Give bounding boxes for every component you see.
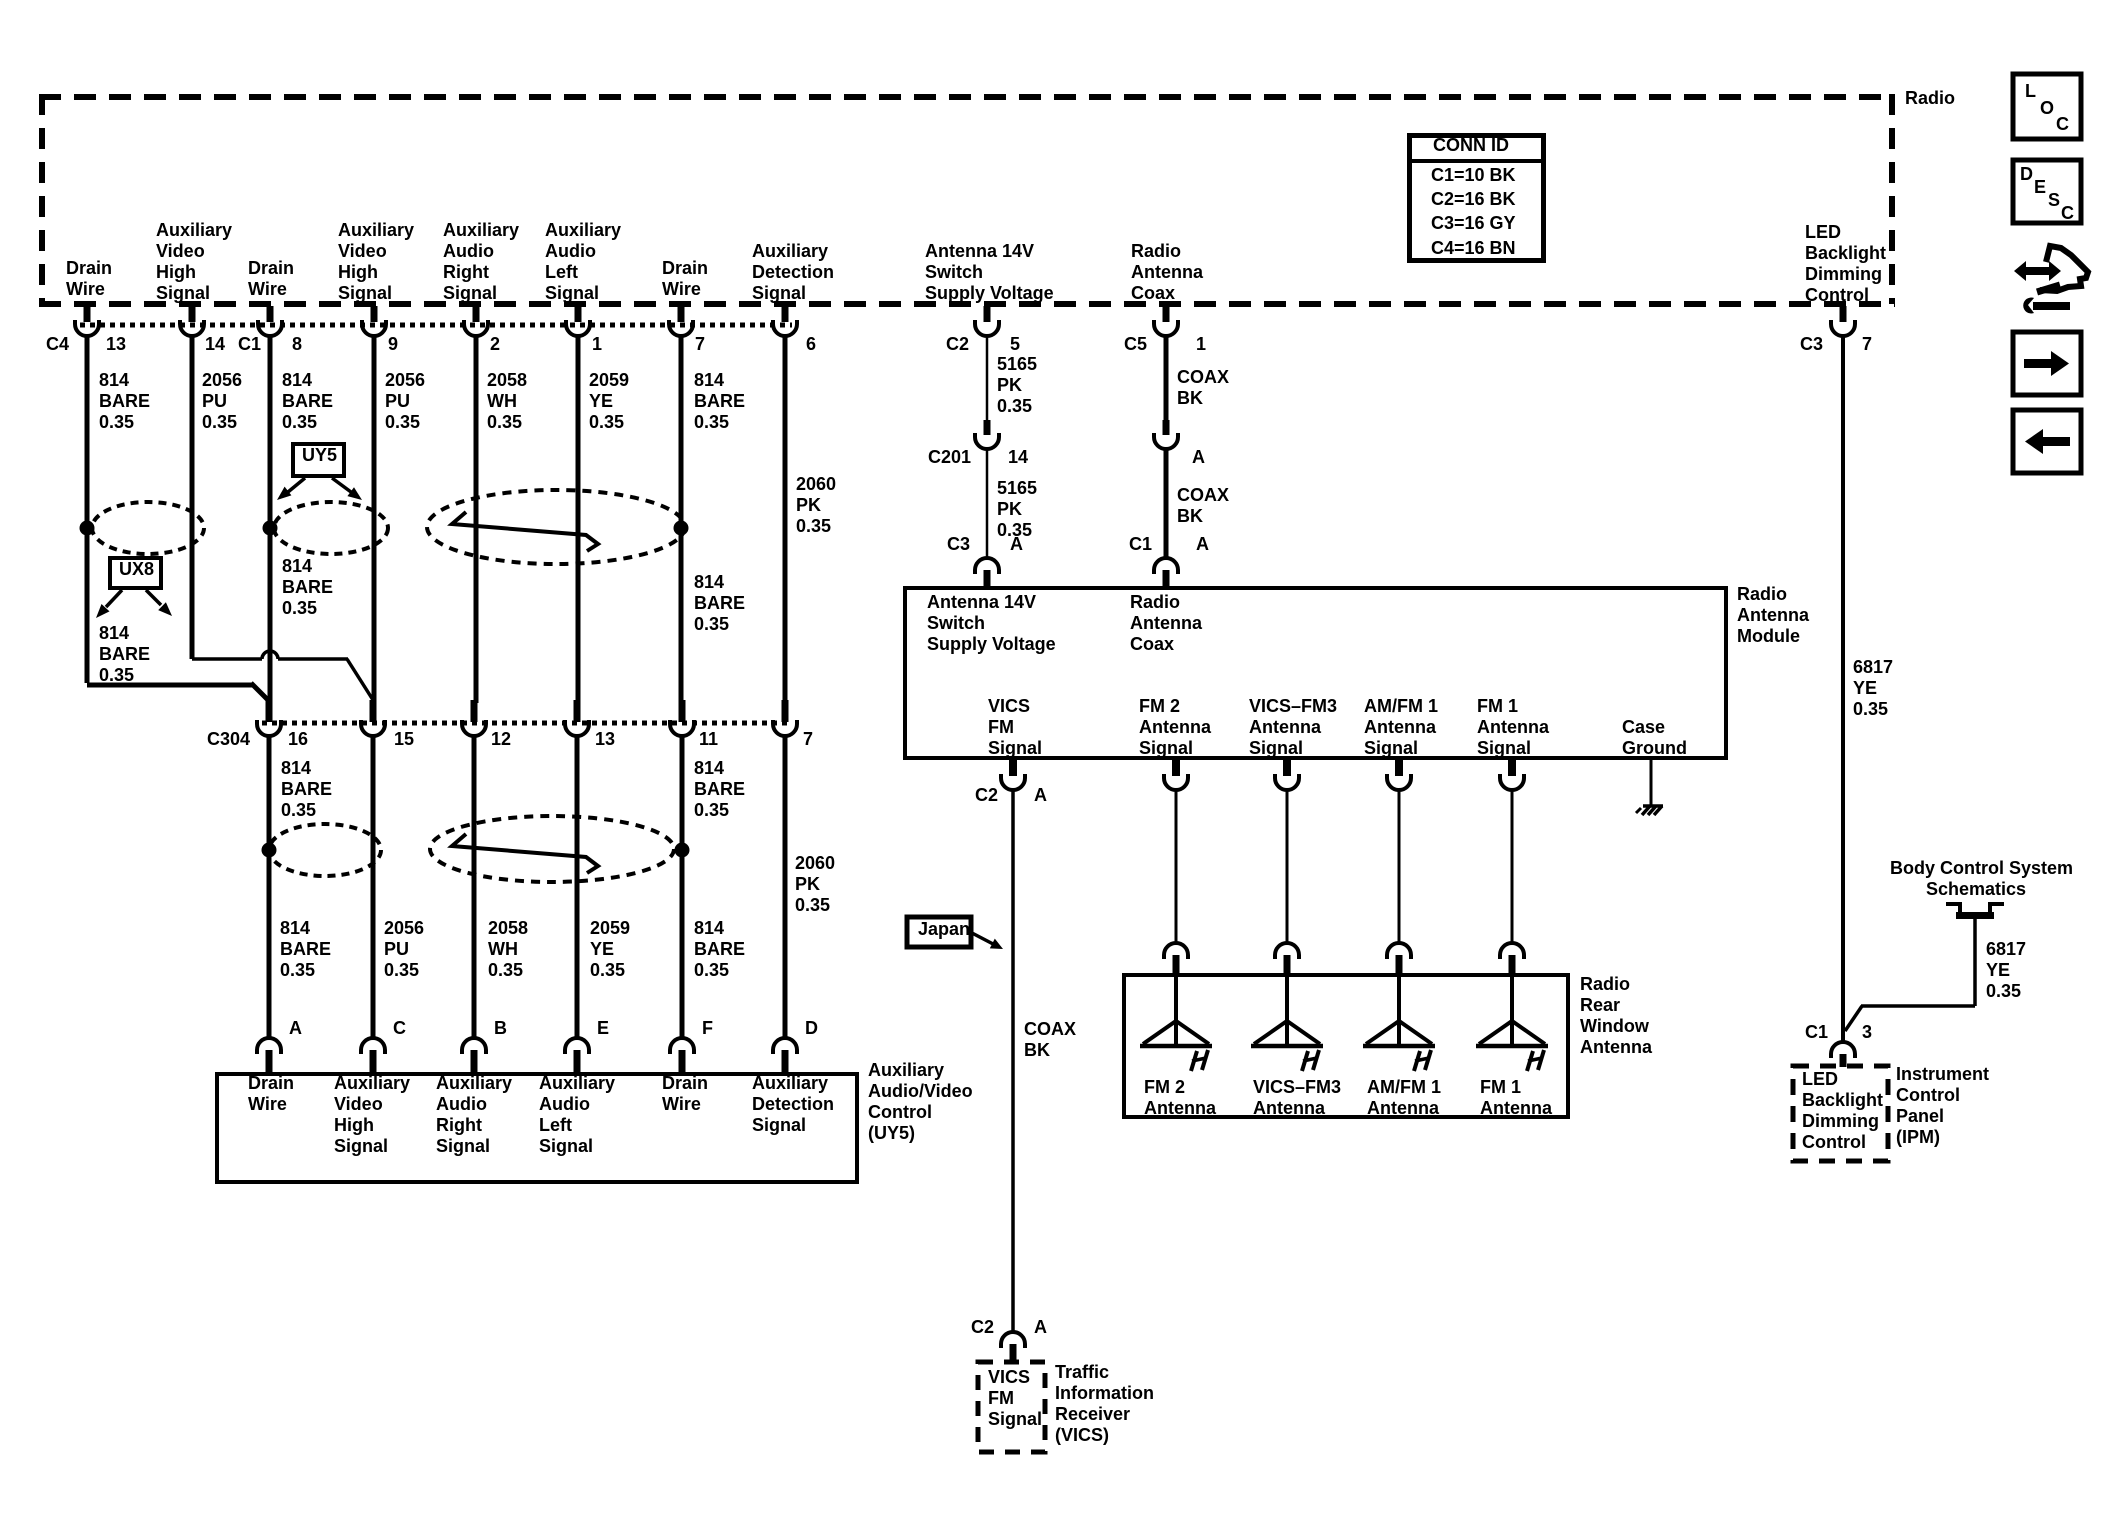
- wire from radio at x=87: [85, 336, 90, 683]
- wire 814 BARE 0.35 (7): [694, 370, 745, 433]
- pin C304-7: [803, 729, 813, 750]
- junction dot drain x682 row2: [675, 843, 690, 858]
- connector pin 7 drain (stub+cup): [678, 306, 685, 322]
- wire from radio at x=681: [679, 336, 684, 703]
- module label AM/FM1: [1364, 696, 1438, 759]
- Radio ECU dashed box outline: [39, 94, 1895, 100]
- connector aux control at x=373 (cap+stub): [361, 1038, 385, 1054]
- connector label C3: [947, 534, 970, 555]
- module bottom connector VICS FM signal (stub+cup): [1009, 760, 1017, 776]
- connector label C201: [928, 447, 971, 468]
- connector pin 2 aux audio right (stub+cup): [473, 306, 480, 322]
- pin D: [805, 1018, 818, 1039]
- antenna hash mark at x=1176: [1191, 1051, 1197, 1071]
- LED Backlight Dimming Control dashed box: [1793, 1066, 1888, 1161]
- antenna symbol at x=1287: [1285, 977, 1289, 1046]
- junction dot drain x87: [80, 521, 95, 536]
- pin label C1: [238, 334, 261, 355]
- CONN ID table: [1407, 133, 1546, 263]
- aux box label drain wire A: [248, 1073, 294, 1115]
- pin C3-A: [1010, 534, 1023, 555]
- connector C4 pin 13 drain (stub+cup): [84, 306, 91, 322]
- label Instrument Control Panel IPM: [1896, 1064, 1989, 1148]
- connector aux control at x=682 (cap+stub): [670, 1038, 694, 1054]
- pin C5-1: [1196, 334, 1206, 355]
- UY5 option box: [293, 444, 344, 476]
- wire 2056 PU 0.35 (9): [385, 370, 425, 433]
- in-line connector C201 pin14: [984, 420, 991, 435]
- module bottom connector VICS-FM3 antenna (stub+cup): [1283, 760, 1291, 776]
- pin label C1 IPM: [1805, 1022, 1828, 1043]
- connector C1 pin 8 drain (stub+cup): [267, 306, 274, 322]
- rear window FM2 antenna label: [1144, 1077, 1216, 1119]
- module label case ground: [1622, 717, 1687, 759]
- aux box label audio left E: [539, 1073, 615, 1157]
- antenna symbol at x=1399: [1397, 977, 1401, 1046]
- pin 6: [806, 334, 816, 355]
- wire 2059 YE lower: [590, 918, 630, 981]
- wire C304 to aux control at x=373: [371, 736, 376, 1038]
- pin 9: [388, 334, 398, 355]
- wire from body control system: [1973, 919, 1977, 1006]
- twisted pair ellipse row2a: [269, 824, 381, 876]
- module label FM2: [1139, 696, 1211, 759]
- pin B: [494, 1018, 507, 1039]
- module bottom connector AM/FM1 antenna (stub+cup): [1395, 760, 1403, 776]
- wire from radio at x=785: [783, 336, 788, 703]
- wire COAX BK upper: [1177, 367, 1229, 409]
- label Auxiliary Audio/Video Control (UY5): [868, 1060, 973, 1144]
- Japan option box: [907, 917, 971, 947]
- pin C1-A: [1196, 534, 1209, 555]
- module label VICS FM signal: [988, 696, 1042, 759]
- pin 2: [490, 334, 500, 355]
- pin label C2 module bottom: [975, 785, 998, 806]
- Radio Rear Window Antenna box: [1124, 975, 1568, 1117]
- connector pin 6 aux detection (stub+cup): [782, 306, 789, 322]
- pin 1: [592, 334, 602, 355]
- wire 2058 WH 0.35 (2): [487, 370, 527, 433]
- wire from radio at x=476: [474, 336, 479, 703]
- wire 6817 YE 0.35 from BCS: [1986, 939, 2026, 1002]
- pin label C2 VICS: [971, 1317, 994, 1338]
- pin 13: [106, 334, 126, 355]
- label radio antenna coax: [1131, 241, 1203, 304]
- back arrow icon box: [2013, 410, 2081, 473]
- twist arrow row1: [452, 512, 598, 551]
- antenna hash mark at x=1399: [1414, 1051, 1420, 1071]
- module label FM1: [1477, 696, 1549, 759]
- junction dot drain x681: [674, 521, 689, 536]
- wire COAX BK lower: [1177, 485, 1229, 527]
- connector aux control at x=269 (cap+stub): [257, 1038, 281, 1054]
- antenna wire at x=1287: [1286, 791, 1289, 943]
- wire C304 to aux control at x=474: [472, 736, 477, 1038]
- label drain wire 7: [662, 258, 708, 300]
- antenna hash mark at x=1287: [1302, 1051, 1308, 1071]
- pin label C5: [1124, 334, 1147, 355]
- connector C2 pin 5 antenna 14V (stub+cup): [984, 306, 991, 322]
- wire C304 to aux control at x=269: [267, 736, 272, 1038]
- wire 2058 WH lower: [488, 918, 528, 981]
- connector pin 9 aux video high (stub+cup): [371, 306, 378, 322]
- UY5 label: [302, 445, 337, 466]
- antenna symbol at x=1512: [1510, 977, 1514, 1046]
- pin 8: [292, 334, 302, 355]
- wire 814 BARE row2 x682: [694, 758, 745, 821]
- wire 2060 PK row2: [795, 853, 835, 916]
- aux box label drain wire F: [662, 1073, 708, 1115]
- antenna wire at x=1512: [1511, 791, 1514, 943]
- pin 11: [699, 729, 718, 750]
- connector C3-A into module (cap+stub): [975, 558, 999, 574]
- Auxiliary Audio/Video Control box: [217, 1074, 857, 1182]
- label Radio Antenna Module: [1737, 584, 1809, 647]
- wire 5165 PK 0.35 lower: [997, 478, 1037, 541]
- junction dot drain x270: [263, 521, 278, 536]
- in-line coax connector A: [1163, 420, 1170, 435]
- label drain wire C1-8: [248, 258, 294, 300]
- rear window VICS-FM3 antenna label: [1253, 1077, 1341, 1119]
- connector C304 at x=373 (stub+cup): [370, 700, 377, 722]
- wire 814 BARE row2 x269: [281, 758, 332, 821]
- label Radio Rear Window Antenna: [1580, 974, 1652, 1058]
- connector C1-A into module (cap+stub): [1154, 558, 1178, 574]
- pin label C4: [46, 334, 69, 355]
- wire from radio at x=374: [372, 336, 377, 703]
- pin C: [393, 1018, 406, 1039]
- pin label C2: [946, 334, 969, 355]
- antenna symbol at x=1176: [1174, 977, 1178, 1046]
- module label radio antenna coax: [1130, 592, 1202, 655]
- pin F: [702, 1018, 713, 1039]
- in-line connector dotted row at radio: [80, 323, 792, 328]
- label aux audio left signal 1: [545, 220, 621, 304]
- connector aux control at x=785 (cap+stub): [773, 1038, 797, 1054]
- wire from radio at x=192: [190, 336, 195, 659]
- wire 814 BARE 0.35 below UY5: [282, 556, 333, 619]
- case ground wire: [1650, 760, 1653, 806]
- pin E: [597, 1018, 609, 1039]
- connector C304 at x=269 (stub+cup): [266, 700, 273, 722]
- connector C1-3 into instrument panel (cap+stub): [1831, 1042, 1855, 1058]
- coax wire C5-1 to inline: [1164, 336, 1169, 420]
- pin 12: [491, 729, 511, 750]
- UX8 arrows: [106, 590, 122, 607]
- connector C3 pin 7 LED backlight (stub+cup): [1840, 306, 1847, 322]
- LOC letters: [2025, 81, 2036, 102]
- pin A module bottom: [1034, 785, 1047, 806]
- wire C304 to aux control at x=682: [680, 736, 685, 1038]
- module label antenna 14V: [927, 592, 1056, 655]
- wire 814 BARE 0.35 (C1-8): [282, 370, 333, 433]
- case ground symbol: [1643, 804, 1663, 808]
- aux box label detection D: [752, 1073, 834, 1136]
- aux box label audio right B: [436, 1073, 512, 1157]
- wire 2056 PU 0.35 (14): [202, 370, 242, 433]
- wire pin14 route to C304 pin15 with hop over x270: [192, 657, 262, 661]
- wire 2059 YE 0.35 (1): [589, 370, 629, 433]
- label Traffic Information Receiver VICS: [1055, 1362, 1154, 1446]
- pin 5: [1010, 334, 1020, 355]
- pin 16: [288, 729, 308, 750]
- pin 7: [695, 334, 705, 355]
- Radio Antenna Module box: [905, 588, 1726, 758]
- Body Control System bracket symbol: [1946, 904, 2004, 914]
- pin A: [289, 1018, 302, 1039]
- twisted pair big ellipse row2: [430, 816, 674, 882]
- connector pin 14 aux video high (stub+cup): [189, 306, 196, 322]
- connector C304 at x=785 (stub+cup): [782, 700, 789, 722]
- label drain wire C4-13: [66, 258, 112, 300]
- LED backlight dimming wire: [1841, 336, 1845, 1041]
- pin 15: [394, 729, 414, 750]
- connector C304 at x=682 (stub+cup): [679, 700, 686, 722]
- wire 6817 YE 0.35 LED: [1853, 657, 1893, 720]
- wire 814 BARE lower x269: [280, 918, 331, 981]
- wire 2056 PU lower: [384, 918, 424, 981]
- wire from radio at x=578: [576, 336, 581, 703]
- pin coax inline A: [1192, 447, 1205, 468]
- wire 5165 PK 0.35 upper: [997, 354, 1037, 417]
- coax wire to C1-A: [1164, 449, 1169, 557]
- connector label C304: [207, 729, 250, 750]
- label aux detection signal 6: [752, 241, 834, 304]
- wire 814 BARE 0.35 below UX8: [99, 623, 150, 686]
- connector into rear window antenna at x=1287 (cap+stub): [1275, 943, 1299, 959]
- wire 814 BARE 0.35 below dot 7: [694, 572, 745, 635]
- twisted pair big ellipse row1: [427, 490, 685, 564]
- wire C304 to aux control at x=577: [575, 736, 580, 1038]
- wire from radio at x=270: [268, 336, 273, 703]
- label aux video high signal 14: [156, 220, 232, 304]
- wire COAX BK VICS: [1024, 1019, 1076, 1061]
- label aux video high signal 9: [338, 220, 414, 304]
- forward arrow icon box: [2013, 332, 2081, 395]
- twist arrow row2: [452, 834, 598, 873]
- in-line connector dotted row C304: [262, 721, 792, 726]
- Body Control System Schematics label: [1890, 858, 2062, 900]
- wire 814 BARE lower x682: [694, 918, 745, 981]
- DESC letters: [2020, 164, 2033, 185]
- wire C201 to C3-A: [986, 449, 989, 557]
- connector label C1 module: [1129, 534, 1152, 555]
- connector C2-A into VICS receiver (cap+stub): [1001, 1332, 1025, 1348]
- wire 814 BARE 0.35 (C4-13): [99, 370, 150, 433]
- pin C201-14: [1008, 447, 1028, 468]
- antenna wire at x=1399: [1398, 791, 1401, 943]
- connector C304 at x=577 (stub+cup): [574, 700, 581, 722]
- connector pin 1 aux audio left (stub+cup): [575, 306, 582, 322]
- Japan arrow: [972, 933, 995, 945]
- label aux audio right signal 2: [443, 220, 519, 304]
- connector aux control at x=577 (cap+stub): [565, 1038, 589, 1054]
- aux box label video high C: [334, 1073, 410, 1157]
- pin 3 IPM: [1862, 1022, 1872, 1043]
- harness-routing squiggle icon with double arrow and wrench: [2014, 261, 2061, 281]
- Radio label: [1905, 88, 1955, 109]
- label antenna 14V switch supply voltage: [925, 241, 1054, 304]
- junction dot drain x269 row2: [262, 843, 277, 858]
- connector C5 pin 1 radio antenna coax (stub+cup): [1163, 306, 1170, 322]
- UY5 arrows: [288, 478, 305, 492]
- antenna hash mark at x=1512: [1527, 1051, 1533, 1071]
- pin label C3: [1800, 334, 1823, 355]
- label LED backlight dimming control (radio): [1805, 222, 1886, 306]
- module bottom connector FM2 antenna (stub+cup): [1172, 760, 1180, 776]
- VICS FM signal coax wire: [1011, 791, 1015, 1332]
- twisted pair ellipse 1 row1: [92, 502, 204, 554]
- pin 14: [205, 334, 225, 355]
- LOC icon box: [2013, 74, 2081, 139]
- Japan label: [918, 919, 970, 940]
- pin A VICS: [1034, 1317, 1047, 1338]
- module bottom connector FM1 antenna (stub+cup): [1508, 760, 1516, 776]
- connector into rear window antenna at x=1176 (cap+stub): [1164, 943, 1188, 959]
- wire 2060 PK 0.35 (6): [796, 474, 836, 537]
- UX8 option box: [110, 558, 161, 588]
- twisted pair ellipse 2 row1: [274, 502, 388, 554]
- pin C304-13: [595, 729, 615, 750]
- DESC icon box: [2013, 160, 2081, 223]
- VICS FM Signal dashed box: [978, 1362, 1045, 1452]
- wire C304 to aux control at x=785: [783, 736, 788, 1038]
- label VICS FM Signal box: [988, 1367, 1042, 1430]
- connector C304 at x=474 (stub+cup): [471, 700, 478, 722]
- UX8 label: [119, 559, 154, 580]
- label LED backlight dimming control (IPM): [1802, 1069, 1883, 1153]
- rear window AM/FM1 antenna label: [1367, 1077, 1441, 1119]
- rear window FM1 antenna label: [1480, 1077, 1552, 1119]
- wire antenna 14V C2-5 to C201: [986, 336, 989, 420]
- antenna wire at x=1176: [1175, 791, 1178, 943]
- connector into rear window antenna at x=1399 (cap+stub): [1387, 943, 1411, 959]
- connector into rear window antenna at x=1512 (cap+stub): [1500, 943, 1524, 959]
- module label VICS-FM3: [1249, 696, 1337, 759]
- pin C3-7: [1862, 334, 1872, 355]
- wire drain x87 horizontal to C304 pin16: [87, 683, 252, 688]
- connector aux control at x=474 (cap+stub): [462, 1038, 486, 1054]
